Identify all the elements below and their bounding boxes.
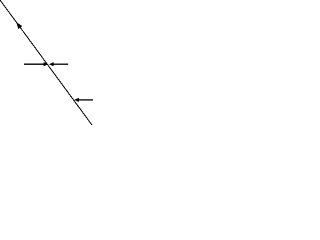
arrowhead: direction arrow on diagonal pointing up-left	[16, 22, 22, 29]
arrowhead: lower force arrow pointing left at diagonal	[74, 98, 79, 102]
wire: lower horizontal segment	[79, 99, 94, 101]
wire: diagonal line of action	[0, 0, 92, 125]
wire: left horizontal segment	[24, 63, 44, 65]
wire: right horizontal segment	[53, 63, 68, 65]
arrowhead: right force arrow pointing left at diagonal	[49, 62, 54, 66]
arrowhead: left force arrow pointing right at diagonal	[44, 62, 49, 66]
